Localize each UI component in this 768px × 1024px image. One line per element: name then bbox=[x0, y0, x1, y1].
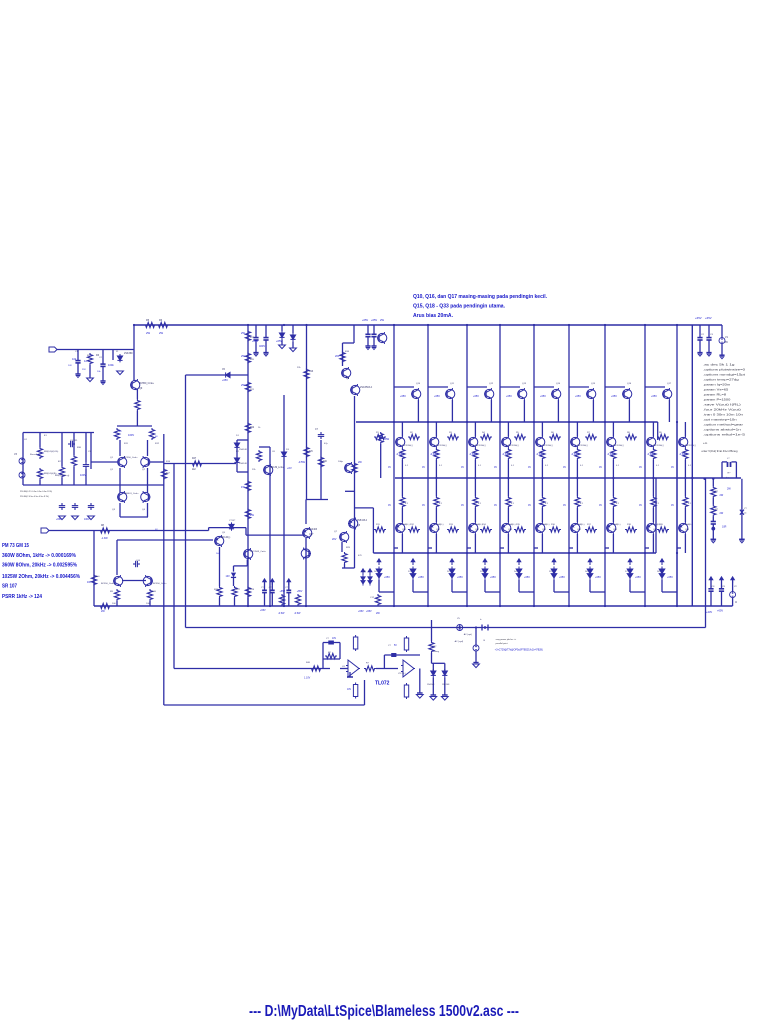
svg-text:R40: R40 bbox=[306, 662, 311, 664]
svg-text:V1: V1 bbox=[725, 336, 729, 339]
svg-text:J1: J1 bbox=[116, 351, 119, 353]
svg-text:Q24: Q24 bbox=[542, 529, 547, 531]
svg-text:D5: D5 bbox=[549, 571, 553, 573]
svg-text:360W 8Ohm, 1kHz -> 0.000169%: 360W 8Ohm, 1kHz -> 0.000169% bbox=[2, 553, 77, 559]
svg-text:0V: 0V bbox=[639, 466, 642, 469]
svg-text:2SA(K-): 2SA(K-) bbox=[508, 523, 516, 526]
svg-text:100V: 100V bbox=[84, 518, 90, 521]
svg-text:U1: U1 bbox=[342, 666, 346, 668]
svg-text:2W: 2W bbox=[720, 512, 724, 515]
svg-text:Q1: Q1 bbox=[110, 469, 114, 471]
svg-text:+65V: +65V bbox=[540, 395, 546, 398]
svg-text:Q23: Q23 bbox=[508, 529, 513, 531]
svg-text:1k: 1k bbox=[258, 427, 261, 429]
svg-text:2W: 2W bbox=[727, 488, 731, 491]
svg-text:470: 470 bbox=[358, 555, 362, 557]
svg-text:2SC5200(-): 2SC5200(-) bbox=[402, 445, 413, 447]
svg-text:R6: R6 bbox=[551, 432, 555, 434]
svg-text:2W: 2W bbox=[250, 513, 254, 517]
svg-text:R27: R27 bbox=[236, 589, 241, 591]
svg-text:0V: 0V bbox=[528, 504, 531, 507]
svg-text:R11: R11 bbox=[124, 443, 129, 445]
svg-text:R28: R28 bbox=[250, 589, 255, 591]
svg-text:V5: V5 bbox=[457, 618, 460, 620]
svg-text:+65V: +65V bbox=[717, 609, 723, 613]
svg-text:0V: 0V bbox=[422, 504, 425, 507]
svg-text:.param Iq=20m: .param Iq=20m bbox=[703, 383, 731, 387]
svg-text:.param Vs=65: .param Vs=65 bbox=[703, 388, 729, 392]
svg-text:2SK369: 2SK369 bbox=[124, 352, 133, 355]
svg-text:2SC5200(-): 2SC5200(-) bbox=[475, 445, 486, 447]
svg-text:R2: R2 bbox=[410, 432, 414, 434]
svg-text:V3: V3 bbox=[14, 453, 18, 456]
svg-text:Q26: Q26 bbox=[613, 529, 618, 531]
svg-text:C9: C9 bbox=[722, 586, 726, 588]
svg-text:+65V: +65V bbox=[434, 395, 440, 398]
svg-text:V2: V2 bbox=[734, 586, 737, 588]
svg-text:2N5401_Cmk+: 2N5401_Cmk+ bbox=[124, 493, 139, 495]
svg-text:Q11: Q11 bbox=[450, 383, 455, 385]
svg-text:2SA(K-): 2SA(K-) bbox=[613, 523, 621, 526]
svg-text:x4: x4 bbox=[744, 513, 747, 515]
svg-text:+65V: +65V bbox=[276, 339, 282, 343]
svg-text:2SC3503 A: 2SC3503 A bbox=[360, 386, 373, 389]
svg-text:SR 107: SR 107 bbox=[2, 584, 17, 590]
svg-text:Q15: Q15 bbox=[591, 383, 596, 385]
svg-text:68: 68 bbox=[119, 431, 122, 433]
svg-text:0.1: 0.1 bbox=[545, 465, 549, 467]
svg-text:Q25: Q25 bbox=[577, 529, 582, 531]
svg-text:0.1: 0.1 bbox=[478, 503, 482, 505]
svg-text:C? R?: C? R? bbox=[229, 520, 236, 522]
svg-text:4k5: 4k5 bbox=[309, 451, 313, 453]
svg-text:2SA(K-): 2SA(K-) bbox=[685, 523, 693, 526]
svg-text:10V: 10V bbox=[347, 689, 352, 691]
svg-text:+65V: +65V bbox=[297, 590, 303, 593]
svg-text:R1: R1 bbox=[376, 432, 380, 434]
svg-text:Rser=0: Rser=0 bbox=[30, 453, 38, 456]
svg-text:Q28: Q28 bbox=[685, 529, 690, 531]
svg-text:D8: D8 bbox=[657, 571, 661, 573]
svg-text:BC550_Cmk+: BC550_Cmk+ bbox=[124, 457, 138, 459]
svg-text:L?: L? bbox=[727, 458, 730, 460]
svg-text:BC550_Cmk+: BC550_Cmk+ bbox=[101, 583, 115, 585]
svg-text:Q8: Q8 bbox=[357, 525, 361, 527]
svg-text:enter V(Out) 9=at 43+1 86meg: enter V(Out) 9=at 43+1 86meg bbox=[702, 449, 738, 453]
svg-text:.ac dec 5k 1 1g: .ac dec 5k 1 1g bbox=[703, 363, 735, 367]
svg-text:B: B bbox=[484, 640, 486, 642]
svg-text:.param P=1500: .param P=1500 bbox=[703, 398, 731, 402]
svg-text:-0.5W: -0.5W bbox=[298, 460, 305, 464]
svg-text:Q13: Q13 bbox=[522, 383, 527, 385]
svg-text:Q21: Q21 bbox=[436, 529, 441, 531]
svg-text:Q1: Q1 bbox=[110, 457, 114, 459]
svg-text:100V: 100V bbox=[80, 473, 86, 477]
svg-text:C3: C3 bbox=[710, 334, 714, 336]
svg-text:4meg: 4meg bbox=[434, 651, 440, 653]
svg-text:2SA(K-): 2SA(K-) bbox=[402, 523, 410, 526]
svg-text:D2: D2 bbox=[236, 451, 240, 453]
svg-text:BW(0.5)/(0.2k): BW(0.5)/(0.2k) bbox=[44, 451, 58, 453]
svg-text:R12: R12 bbox=[155, 443, 160, 445]
svg-text:C8: C8 bbox=[712, 586, 716, 588]
svg-text:2SC5200(-): 2SC5200(-) bbox=[436, 445, 447, 447]
svg-text:+65V: +65V bbox=[418, 576, 424, 579]
svg-text:1025W 2Ohm, 20kHz -> 0.004456%: 1025W 2Ohm, 20kHz -> 0.004456% bbox=[2, 574, 81, 580]
svg-text:+ -: + - bbox=[726, 477, 729, 479]
svg-text:0.1: 0.1 bbox=[439, 503, 443, 505]
svg-text:R?: R? bbox=[366, 663, 370, 665]
svg-text:V4: V4 bbox=[24, 439, 27, 441]
svg-text:1N4148: 1N4148 bbox=[442, 684, 450, 686]
svg-text:R11: R11 bbox=[376, 524, 381, 526]
svg-text:Q20: Q20 bbox=[402, 529, 407, 531]
svg-text:.param RL=8: .param RL=8 bbox=[703, 393, 727, 397]
svg-text:R6: R6 bbox=[159, 319, 163, 322]
svg-text:2SC5200(-): 2SC5200(-) bbox=[542, 445, 553, 447]
svg-text:5V: 5V bbox=[394, 645, 397, 647]
svg-text:R4: R4 bbox=[482, 432, 486, 434]
svg-text:D8: D8 bbox=[363, 571, 367, 573]
svg-text:.options abstol=1n: .options abstol=1n bbox=[703, 428, 741, 432]
svg-text:0.1: 0.1 bbox=[405, 465, 409, 467]
svg-text:0V: 0V bbox=[461, 466, 464, 469]
svg-text:+65V: +65V bbox=[559, 576, 565, 579]
svg-text:+65V: +65V bbox=[473, 395, 479, 398]
svg-text:R30: R30 bbox=[77, 447, 82, 449]
svg-text:.option method=gear: .option method=gear bbox=[703, 423, 743, 427]
svg-text:TL072: TL072 bbox=[375, 681, 390, 687]
svg-text:R25: R25 bbox=[346, 547, 351, 549]
svg-text:+65V: +65V bbox=[490, 576, 496, 579]
svg-text:R16: R16 bbox=[551, 524, 556, 526]
svg-text:C1 R31: C1 R31 bbox=[70, 440, 78, 442]
svg-text:2W: 2W bbox=[241, 354, 245, 358]
svg-text:R9: R9 bbox=[659, 432, 663, 434]
svg-text:65: 65 bbox=[725, 341, 728, 344]
svg-text:1N4148: 1N4148 bbox=[427, 684, 435, 686]
svg-text:0V: 0V bbox=[639, 504, 642, 507]
svg-text:.opt maxstep=10n: .opt maxstep=10n bbox=[703, 418, 737, 422]
svg-text:0V: 0V bbox=[494, 466, 497, 469]
svg-text:0V: 0V bbox=[599, 504, 602, 507]
svg-text:4k0: 4k0 bbox=[96, 576, 100, 578]
svg-text:0.1: 0.1 bbox=[616, 465, 620, 467]
svg-text:parallel print: parallel print bbox=[496, 642, 508, 645]
svg-text:10V: 10V bbox=[332, 638, 337, 640]
svg-text:100: 100 bbox=[112, 603, 116, 605]
svg-text:D4: D4 bbox=[514, 571, 518, 573]
svg-text:<3+C729@T7b@OP5a3P7B525JvQ+47B: <3+C729@T7b@OP5a3P7B525JvQ+47B28) bbox=[495, 649, 543, 652]
svg-text:D0: D0 bbox=[374, 571, 378, 573]
svg-text:Q10, Q16, dan Q17 masing-masin: Q10, Q16, dan Q17 masing-masing pada pen… bbox=[413, 294, 548, 300]
svg-text:2SA(K-): 2SA(K-) bbox=[542, 523, 550, 526]
svg-text:D3: D3 bbox=[286, 449, 290, 451]
svg-text:R9: R9 bbox=[110, 591, 114, 593]
svg-text:0.1: 0.1 bbox=[545, 503, 549, 505]
svg-text:Q14: Q14 bbox=[556, 383, 561, 385]
svg-text:E1: E1 bbox=[44, 435, 47, 437]
svg-text:+65V: +65V bbox=[252, 339, 258, 343]
svg-text:D1: D1 bbox=[236, 435, 240, 437]
svg-text:0.1: 0.1 bbox=[616, 503, 620, 505]
svg-text:.save V(out) I(RL): .save V(out) I(RL) bbox=[703, 403, 741, 407]
svg-text:R14: R14 bbox=[482, 524, 487, 526]
svg-text:Q16: Q16 bbox=[627, 383, 632, 385]
svg-text:+65V: +65V bbox=[362, 318, 368, 322]
svg-text:0V: 0V bbox=[388, 466, 391, 469]
svg-text:0.1: 0.1 bbox=[688, 465, 692, 467]
svg-text:+65V: +65V bbox=[575, 395, 581, 398]
svg-text:+65V: +65V bbox=[222, 379, 228, 382]
svg-text:1W: 1W bbox=[87, 581, 91, 584]
svg-text:Q12: Q12 bbox=[489, 383, 494, 385]
svg-text:C2: C2 bbox=[99, 357, 103, 359]
svg-text:1N4148: 1N4148 bbox=[239, 449, 247, 451]
svg-text:2W: 2W bbox=[380, 318, 384, 322]
svg-text:R22: R22 bbox=[250, 427, 255, 429]
svg-text:I2: I2 bbox=[735, 602, 738, 604]
svg-text:2W: 2W bbox=[720, 494, 724, 497]
svg-text:2SC5200(-): 2SC5200(-) bbox=[685, 445, 696, 447]
svg-text:-1.3W: -1.3W bbox=[101, 537, 108, 540]
svg-text:R18: R18 bbox=[627, 524, 632, 526]
svg-text:22k: 22k bbox=[252, 469, 256, 471]
svg-text:+65V: +65V bbox=[384, 576, 390, 579]
svg-text:Q10: Q10 bbox=[416, 383, 421, 385]
svg-text:+65V: +65V bbox=[56, 518, 62, 521]
svg-text:+6V: +6V bbox=[287, 466, 292, 470]
svg-text:-0.5W: -0.5W bbox=[278, 612, 285, 615]
svg-text:BC550_Cmk+: BC550_Cmk+ bbox=[153, 583, 167, 585]
svg-text:PULSE(0 2.5 0.5m 0.5m 0.5m R 2: PULSE(0 2.5 0.5m 0.5m 0.5m R 2k) bbox=[20, 491, 52, 493]
svg-text:+65V: +65V bbox=[371, 318, 377, 322]
svg-text:R47: R47 bbox=[192, 458, 197, 460]
svg-text:+65V: +65V bbox=[635, 576, 641, 579]
svg-text:D7: D7 bbox=[625, 571, 629, 573]
svg-text:0V: 0V bbox=[599, 466, 602, 469]
svg-text:22k: 22k bbox=[297, 367, 301, 369]
svg-text:2W: 2W bbox=[159, 331, 163, 335]
svg-text:C6: C6 bbox=[272, 451, 276, 453]
svg-text:0V: 0V bbox=[563, 466, 566, 469]
svg-text:C2: C2 bbox=[701, 334, 705, 336]
svg-text:1N4148: 1N4148 bbox=[239, 463, 247, 465]
svg-text:-0.5W: -0.5W bbox=[294, 612, 301, 615]
svg-text:2W: 2W bbox=[358, 461, 362, 464]
svg-text:25V: 25V bbox=[82, 369, 86, 371]
svg-text:D6: D6 bbox=[585, 571, 589, 573]
svg-text:PM 73 GM 15: PM 73 GM 15 bbox=[2, 543, 29, 549]
svg-text:2SC5200(-): 2SC5200(-) bbox=[577, 445, 588, 447]
svg-text:R8: R8 bbox=[627, 432, 631, 434]
svg-text:.four 20kHz V(out): .four 20kHz V(out) bbox=[703, 408, 741, 412]
svg-text:2SA(K-): 2SA(K-) bbox=[577, 523, 585, 526]
svg-text:R?: R? bbox=[434, 646, 438, 648]
svg-text:10R: 10R bbox=[722, 526, 727, 529]
svg-text:BD140(-): BD140(-) bbox=[221, 537, 231, 539]
svg-text:10k: 10k bbox=[72, 357, 77, 361]
svg-text:PULSE(2 0.5m 0.5m 0.5m R 2k): PULSE(2 0.5m 0.5m 0.5m R 2k) bbox=[20, 496, 49, 498]
svg-text:R10: R10 bbox=[152, 591, 157, 593]
svg-text:+65V: +65V bbox=[260, 609, 266, 612]
svg-text:R14: R14 bbox=[166, 461, 171, 463]
svg-text:47p: 47p bbox=[324, 443, 328, 445]
svg-text:100: 100 bbox=[323, 461, 328, 463]
svg-text:.tran 0 30m 10m 10n: .tran 0 30m 10m 10n bbox=[703, 413, 743, 417]
svg-text:0V: 0V bbox=[494, 504, 497, 507]
svg-text:2W: 2W bbox=[376, 612, 380, 615]
svg-text:R19: R19 bbox=[659, 524, 664, 526]
svg-text:2k2: 2k2 bbox=[192, 469, 196, 471]
svg-text:100p: 100p bbox=[338, 461, 344, 463]
svg-text:20V: 20V bbox=[335, 354, 340, 358]
svg-text:+65V: +65V bbox=[705, 316, 712, 320]
svg-text:BW(2)(1.7k+g): BW(2)(1.7k+g) bbox=[55, 475, 70, 477]
svg-text:Q22: Q22 bbox=[475, 529, 480, 531]
svg-text:C?: C? bbox=[326, 638, 330, 640]
svg-text:C?: C? bbox=[388, 645, 392, 647]
svg-text:R16: R16 bbox=[345, 351, 350, 353]
svg-text:2SC5200(-): 2SC5200(-) bbox=[613, 445, 624, 447]
svg-text:C5: C5 bbox=[222, 369, 226, 371]
svg-text:R3: R3 bbox=[449, 432, 453, 434]
svg-text:2SC5200(-): 2SC5200(-) bbox=[508, 445, 519, 447]
svg-text:360W 8Ohm, 20kHz -> 0.002595%: 360W 8Ohm, 20kHz -> 0.002595% bbox=[2, 563, 78, 569]
svg-text:Q3: Q3 bbox=[112, 509, 116, 511]
svg-text:R12: R12 bbox=[410, 524, 415, 526]
svg-text:R5: R5 bbox=[146, 319, 150, 322]
svg-text:2SC3503_Cmk+: 2SC3503_Cmk+ bbox=[250, 551, 267, 553]
svg-text:2W: 2W bbox=[101, 610, 105, 613]
svg-text:2W: 2W bbox=[146, 331, 150, 335]
svg-text:2SC5200(-): 2SC5200(-) bbox=[653, 445, 664, 447]
svg-text:0.1: 0.1 bbox=[511, 465, 515, 467]
svg-text:0.1: 0.1 bbox=[439, 465, 443, 467]
svg-text:2SA(K-): 2SA(K-) bbox=[436, 523, 444, 526]
svg-text:C12: C12 bbox=[370, 597, 375, 599]
svg-text:R15: R15 bbox=[516, 524, 521, 526]
svg-text:R?: R? bbox=[728, 473, 732, 475]
svg-text:PSRR 1kHz -> 124: PSRR 1kHz -> 124 bbox=[2, 594, 42, 600]
svg-text:0.1: 0.1 bbox=[405, 503, 409, 505]
svg-text:BD139_Lmk+: BD139_Lmk+ bbox=[270, 467, 285, 469]
svg-text:R8: R8 bbox=[101, 525, 105, 527]
svg-text:.options numdgt=15pt: .options numdgt=15pt bbox=[703, 373, 745, 377]
svg-text:0V: 0V bbox=[671, 466, 674, 469]
svg-text:C14: C14 bbox=[136, 560, 141, 562]
svg-text:D3: D3 bbox=[480, 571, 484, 573]
svg-text:R7: R7 bbox=[587, 432, 591, 434]
svg-text:0.1: 0.1 bbox=[580, 465, 584, 467]
svg-text:R13: R13 bbox=[449, 524, 454, 526]
svg-text:2W: 2W bbox=[241, 331, 245, 335]
svg-text:+65V: +65V bbox=[651, 395, 657, 398]
svg-text:R5: R5 bbox=[516, 432, 520, 434]
svg-text:+43V: +43V bbox=[706, 610, 712, 614]
svg-text:C7: C7 bbox=[315, 429, 319, 431]
svg-text:+65V: +65V bbox=[358, 610, 364, 613]
svg-text:0.1: 0.1 bbox=[580, 503, 584, 505]
svg-text:BC550_Cmk+: BC550_Cmk+ bbox=[139, 382, 155, 385]
svg-text:Q9: Q9 bbox=[139, 387, 143, 390]
svg-text:.options plotwinsize=0: .options plotwinsize=0 bbox=[703, 368, 745, 372]
svg-text:0.1: 0.1 bbox=[511, 503, 515, 505]
svg-text:R13: R13 bbox=[309, 371, 314, 373]
svg-text:D2: D2 bbox=[447, 571, 451, 573]
svg-text:Q17: Q17 bbox=[309, 534, 314, 536]
svg-text:+65V: +65V bbox=[667, 576, 673, 579]
svg-text:0V: 0V bbox=[461, 504, 464, 507]
svg-text:+m: +m bbox=[703, 441, 708, 445]
svg-text:+65V: +65V bbox=[400, 395, 406, 398]
svg-text:0V: 0V bbox=[528, 466, 531, 469]
svg-text:0.1: 0.1 bbox=[688, 503, 692, 505]
svg-text:Arus bias 20mA.: Arus bias 20mA. bbox=[413, 313, 454, 319]
svg-text:Q2: Q2 bbox=[142, 469, 146, 471]
svg-text:0.1: 0.1 bbox=[656, 465, 660, 467]
svg-text:Q6: Q6 bbox=[346, 378, 350, 380]
svg-text:+65V: +65V bbox=[695, 316, 702, 320]
svg-text:20V: 20V bbox=[332, 538, 337, 541]
svg-text:10V: 10V bbox=[68, 365, 72, 367]
svg-text:10V: 10V bbox=[226, 575, 231, 578]
svg-text:AC (opt): AC (opt) bbox=[464, 633, 472, 636]
svg-text:2W: 2W bbox=[241, 383, 245, 387]
svg-text:0V: 0V bbox=[563, 504, 566, 507]
svg-text:Q7: Q7 bbox=[334, 531, 338, 533]
svg-text:+65V: +65V bbox=[366, 610, 372, 613]
svg-text:E2: E2 bbox=[58, 461, 61, 463]
svg-text:M?: M? bbox=[715, 509, 719, 511]
svg-text:R17: R17 bbox=[587, 524, 592, 526]
svg-text:100k: 100k bbox=[108, 363, 114, 367]
svg-text:.option temp=27dg: .option temp=27dg bbox=[703, 378, 739, 382]
svg-text:V?: V? bbox=[744, 508, 747, 510]
svg-text:.options reltol=1e-5: .options reltol=1e-5 bbox=[703, 433, 746, 437]
svg-text:--- D:\MyData\LtSpice\Blamele: --- D:\MyData\LtSpice\Blameless 1500v2.a… bbox=[249, 1003, 519, 1020]
svg-text:very power job for <>: very power job for <> bbox=[496, 638, 517, 641]
svg-text:AC (cyd): AC (cyd) bbox=[455, 640, 464, 643]
svg-text:0V: 0V bbox=[422, 466, 425, 469]
svg-text:+65V: +65V bbox=[280, 590, 286, 593]
svg-text:R?: R? bbox=[715, 491, 719, 493]
svg-text:+: + bbox=[480, 617, 482, 621]
svg-text:10k: 10k bbox=[97, 371, 101, 373]
svg-text:2N4403: 2N4403 bbox=[309, 529, 318, 531]
svg-text:+65V: +65V bbox=[611, 395, 617, 398]
svg-text:4k7: 4k7 bbox=[166, 473, 170, 475]
svg-text:D1: D1 bbox=[408, 571, 412, 573]
svg-text:2N5415 A: 2N5415 A bbox=[357, 519, 368, 522]
svg-text:R21: R21 bbox=[250, 389, 255, 391]
svg-text:LT1?2(-): LT1?2(-) bbox=[398, 673, 406, 675]
svg-text:R20: R20 bbox=[250, 359, 255, 361]
svg-text:0V: 0V bbox=[388, 504, 391, 507]
svg-text:0.1: 0.1 bbox=[478, 465, 482, 467]
svg-text:Q4: Q4 bbox=[142, 509, 146, 511]
svg-text:Q5: Q5 bbox=[222, 532, 226, 534]
svg-text:+65V: +65V bbox=[457, 576, 463, 579]
svg-text:0V: 0V bbox=[671, 504, 674, 507]
svg-text:1.10V: 1.10V bbox=[304, 677, 311, 680]
svg-text:+65V: +65V bbox=[506, 395, 512, 398]
svg-text:Q15, Q18 - Q33 pada pendingin: Q15, Q18 - Q33 pada pendingin utama. bbox=[413, 304, 506, 310]
svg-text:+65V: +65V bbox=[595, 576, 601, 579]
svg-text:1W: 1W bbox=[241, 485, 245, 489]
svg-text:68: 68 bbox=[155, 436, 158, 438]
svg-text:Q17: Q17 bbox=[667, 383, 672, 385]
